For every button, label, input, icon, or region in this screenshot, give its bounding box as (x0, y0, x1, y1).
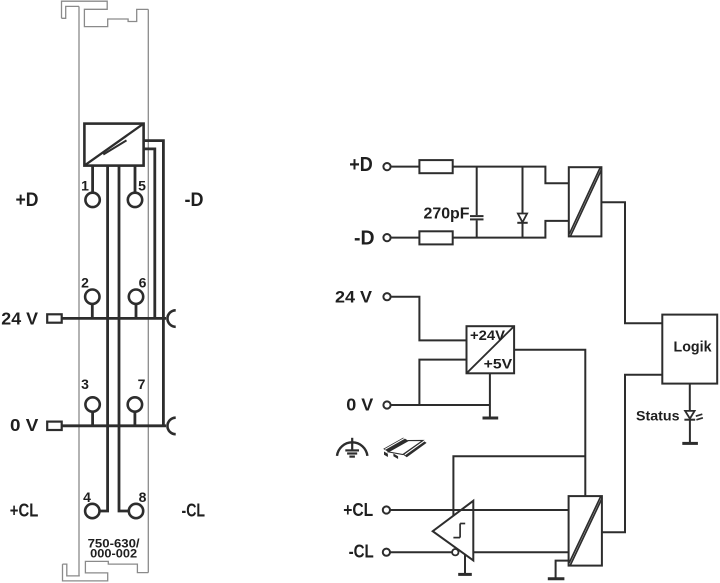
svg-text:000-002: 000-002 (90, 546, 137, 560)
0V jumper contact arc (167, 418, 175, 435)
svg-text:3: 3 (81, 376, 89, 392)
ground bar U3 (548, 577, 565, 580)
wire R2 to isolator, elbow up (453, 221, 569, 238)
wire comparator to ground (464, 555, 466, 575)
24V jumper contact arc (167, 310, 175, 327)
wire +5V output down to comparator isolator (514, 350, 585, 496)
wire bus left (to pin 4) (100, 166, 108, 511)
terminal 0V (383, 401, 390, 408)
earth symbol (337, 438, 367, 457)
pin 6 stub to 24V rail (135, 304, 138, 319)
svg-text:5: 5 (138, 178, 146, 194)
comparator (hysteresis) (433, 501, 474, 561)
wire Logik to comparator isolator (602, 375, 662, 533)
wire 0V branch to DC converter lower input (419, 360, 466, 405)
pin 7 (128, 397, 142, 411)
svg-text:-D: -D (354, 227, 375, 249)
wire stub pin 1 (91, 166, 94, 193)
wire Logik to status LED (689, 384, 691, 411)
svg-text:0 V: 0 V (10, 415, 39, 435)
pin 2 (85, 290, 99, 304)
svg-text:Logik: Logik (674, 338, 713, 355)
wire comparator output to isolator (473, 551, 568, 553)
pin 4 (85, 504, 99, 518)
svg-text:8: 8 (139, 489, 147, 505)
pin 8 (129, 504, 143, 518)
ground bar DC converter (483, 417, 499, 420)
module left edge (78, 6, 80, 576)
capacitor C1 (470, 167, 484, 238)
pin 1 (85, 193, 99, 207)
terminal +D (383, 163, 390, 170)
svg-text:+5V: +5V (484, 357, 513, 372)
wire 0V to ground node (391, 404, 490, 406)
transformer/isolator block in module (84, 124, 143, 166)
wire DC converter bottom to ground (489, 373, 491, 418)
svg-text:+CL: +CL (343, 500, 373, 520)
wire +D to resistor (391, 166, 419, 168)
0V rail (62, 424, 166, 427)
24V terminal square (47, 314, 62, 322)
svg-text:+D: +D (349, 154, 373, 176)
terminal -D (383, 234, 390, 241)
wire U3 lower left to ground (556, 561, 569, 579)
wire stub pin 5 (134, 166, 137, 193)
svg-text:+24V: +24V (470, 328, 505, 343)
wire transformer lower output to 24V rail (144, 149, 155, 319)
wire bus right (to pin 8) (119, 166, 129, 511)
hysteresis symbol (453, 524, 465, 538)
module housing outline top profile (62, 1, 149, 26)
24V rail (62, 317, 166, 320)
resistor R2 (419, 231, 452, 244)
wire +CL through comparator to isolator (390, 509, 568, 511)
terminal 24V (383, 293, 390, 300)
wire U1 output to Logik (601, 202, 662, 323)
svg-text:7: 7 (138, 376, 146, 392)
svg-text:4: 4 (83, 489, 91, 505)
wire R1 to isolator, elbow down (453, 167, 569, 184)
DIN rail icon (383, 438, 426, 459)
0V terminal square (47, 422, 62, 430)
svg-text:+D: +D (16, 189, 39, 211)
wire -D to resistor (391, 237, 419, 239)
svg-text:-CL: -CL (182, 501, 206, 521)
pin 2 stub to 24V rail (91, 304, 94, 319)
svg-text:Status: Status (636, 408, 680, 423)
svg-text:24 V: 24 V (1, 308, 38, 328)
pin 3 (85, 397, 99, 411)
pin 3 stub to 0V rail (91, 412, 94, 426)
isolator U3 (clock side) (569, 496, 602, 565)
pin 7 stub to 0V rail (133, 412, 136, 426)
svg-text:+CL: +CL (10, 501, 39, 521)
svg-text:-CL: -CL (349, 541, 374, 561)
DC/DC converter U2 (467, 326, 515, 373)
svg-text:6: 6 (139, 274, 147, 290)
wire 24V to DC converter (391, 297, 467, 341)
terminal -CL (383, 549, 390, 556)
diode D1 (517, 167, 527, 238)
module housing outline bottom profile (63, 561, 149, 581)
ground bar comparator (458, 573, 472, 576)
ground bar status (682, 442, 698, 445)
LED status (684, 411, 703, 420)
wire -CL to inverter bubble (390, 551, 452, 553)
svg-text:-D: -D (185, 189, 204, 211)
isolator U1 (field side) (569, 167, 602, 236)
resistor R1 (419, 160, 452, 173)
terminal +CL (383, 506, 390, 513)
Logik box (662, 315, 717, 384)
wire +5V tee to comparator (453, 456, 585, 515)
svg-text:1: 1 (81, 178, 89, 194)
wire LED to ground (689, 420, 691, 444)
pin 5 (128, 193, 142, 207)
wire transformer upper output to 0V rail (144, 141, 164, 426)
svg-text:270pF: 270pF (424, 206, 470, 223)
svg-text:24 V: 24 V (335, 287, 373, 306)
svg-text:0 V: 0 V (346, 395, 373, 415)
pin 6 (129, 290, 143, 304)
inverter bubble (452, 549, 458, 555)
svg-text:2: 2 (81, 274, 89, 290)
module right edge (147, 9, 149, 572)
